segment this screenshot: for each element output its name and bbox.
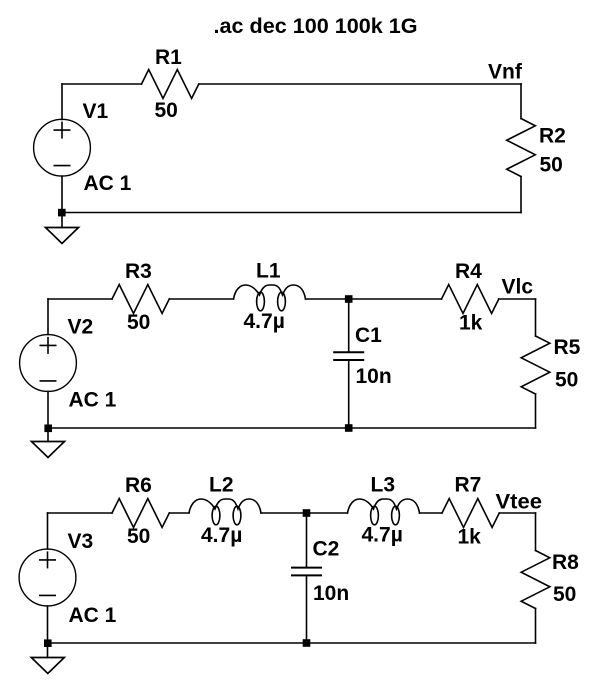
svg-text:R2: R2 <box>539 125 566 148</box>
svg-text:L1: L1 <box>256 260 281 283</box>
wire <box>47 299 49 335</box>
svg-text:R6: R6 <box>125 474 152 497</box>
inductor L3 <box>348 499 420 525</box>
resistor R3 <box>112 285 169 314</box>
node 0 junction <box>44 425 52 433</box>
resistor R5 <box>521 336 550 394</box>
resistor R2 <box>507 119 536 177</box>
wire <box>47 513 49 549</box>
svg-text:50: 50 <box>540 154 563 177</box>
ground <box>32 442 65 458</box>
voltage source V2 <box>20 335 77 392</box>
wire <box>169 298 233 300</box>
node N3-bot junction <box>303 639 311 647</box>
node N2-bot junction <box>345 424 353 432</box>
wire <box>306 298 442 300</box>
node N2-top junction <box>345 295 353 303</box>
resistor R6 <box>112 499 169 528</box>
wire <box>306 513 308 568</box>
svg-text:R5: R5 <box>554 336 581 359</box>
ground <box>31 658 64 674</box>
wire <box>348 299 350 352</box>
wire <box>520 177 522 213</box>
wire <box>535 513 537 551</box>
svg-text:50: 50 <box>555 369 578 392</box>
wire <box>535 299 537 336</box>
svg-text:50: 50 <box>127 311 150 334</box>
inductor L1 <box>234 285 306 311</box>
node N3-top junction <box>303 509 311 517</box>
wire <box>62 83 142 85</box>
svg-text:V3: V3 <box>68 530 94 553</box>
capacitor C2 <box>291 568 322 576</box>
svg-text:50: 50 <box>127 525 150 548</box>
svg-text:R7: R7 <box>455 474 482 497</box>
svg-text:Vnf: Vnf <box>488 61 523 84</box>
wire <box>47 606 49 658</box>
resistor R8 <box>521 551 550 609</box>
svg-text:V2: V2 <box>68 316 94 339</box>
wire <box>348 360 350 428</box>
resistor R7 <box>442 499 499 528</box>
wire <box>535 609 537 644</box>
ground <box>46 228 79 244</box>
svg-text:.ac dec 100 100k 1G: .ac dec 100 100k 1G <box>214 13 418 38</box>
svg-text:4.7µ: 4.7µ <box>362 524 403 547</box>
wire <box>520 84 522 119</box>
wire <box>62 212 521 214</box>
svg-text:1k: 1k <box>458 526 482 549</box>
svg-text:4.7µ: 4.7µ <box>201 524 242 547</box>
node 0 junction <box>44 639 52 647</box>
wire <box>48 512 113 514</box>
svg-text:R8: R8 <box>552 551 579 574</box>
wire <box>199 83 521 85</box>
svg-text:L2: L2 <box>209 474 234 497</box>
wire <box>169 512 189 514</box>
svg-text:C2: C2 <box>313 538 340 561</box>
wire <box>306 575 308 643</box>
wire <box>48 642 536 644</box>
wire <box>61 84 63 120</box>
svg-text:R4: R4 <box>455 260 482 283</box>
svg-text:V1: V1 <box>83 100 109 123</box>
wire <box>261 512 348 514</box>
resistor R4 <box>442 285 499 314</box>
svg-text:4.7µ: 4.7µ <box>244 310 285 333</box>
svg-text:1k: 1k <box>459 312 483 335</box>
wire <box>47 391 49 441</box>
svg-text:L3: L3 <box>371 474 396 497</box>
svg-text:R1: R1 <box>155 46 182 69</box>
voltage source V3 <box>19 549 76 606</box>
inductor L2 <box>189 499 261 525</box>
wire <box>499 512 535 514</box>
svg-text:10n: 10n <box>356 365 392 388</box>
wire <box>61 176 63 227</box>
svg-text:10n: 10n <box>313 582 349 605</box>
svg-text:AC 1: AC 1 <box>69 604 117 627</box>
wire <box>499 298 536 300</box>
svg-text:R3: R3 <box>125 260 152 283</box>
svg-text:50: 50 <box>155 99 178 122</box>
voltage source V1 <box>34 119 91 176</box>
wire <box>535 394 537 428</box>
wire <box>48 427 536 429</box>
capacitor C1 <box>333 352 364 360</box>
node 0 junction <box>58 209 66 217</box>
svg-text:Vtee: Vtee <box>496 491 543 514</box>
svg-text:Vlc: Vlc <box>502 276 534 299</box>
svg-text:AC 1: AC 1 <box>84 172 132 195</box>
svg-text:AC 1: AC 1 <box>69 389 117 412</box>
wire <box>48 298 112 300</box>
resistor R1 <box>142 70 199 99</box>
svg-text:C1: C1 <box>355 324 382 347</box>
svg-text:50: 50 <box>553 583 576 606</box>
wire <box>420 512 443 514</box>
